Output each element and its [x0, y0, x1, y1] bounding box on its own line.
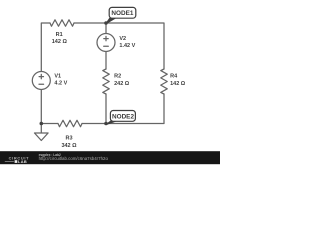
node junction dot at NODE1 [104, 21, 108, 25]
label V1 value [54, 73, 67, 86]
label R4 value [170, 74, 186, 87]
svg-text:R3: R3 [65, 136, 72, 142]
svg-text:V2: V2 [119, 36, 126, 42]
wire R2 bottom to bottom wire [105, 94, 107, 124]
svg-text:342 Ω: 342 Ω [61, 143, 77, 149]
wire V1 bottom to junction [40, 90, 42, 124]
svg-text:4.2 V: 4.2 V [54, 80, 67, 86]
resistor R4 [161, 69, 168, 94]
wire stub V2 top [105, 23, 107, 33]
svg-text:1.42 V: 1.42 V [119, 43, 135, 49]
svg-text:242 Ω: 242 Ω [114, 81, 130, 87]
watermark CircuitLab logo [5, 155, 29, 164]
watermark bar [0, 151, 220, 164]
label R2 value [114, 74, 130, 87]
resistor R1 [50, 20, 74, 27]
node label NODE2 [106, 111, 136, 125]
resistor R3 [58, 120, 82, 127]
resistor R2 [103, 69, 110, 94]
svg-text:LAB: LAB [18, 159, 27, 164]
svg-text:NODE1: NODE1 [111, 10, 133, 17]
svg-text:R1: R1 [56, 32, 63, 38]
svg-text:142 Ω: 142 Ω [52, 39, 68, 45]
voltage source V1 [32, 72, 50, 90]
label R3 value [61, 136, 77, 149]
svg-text:V1: V1 [54, 73, 61, 79]
wire left riser and top-left segment to R1 [41, 23, 50, 71]
svg-text:142 Ω: 142 Ω [170, 81, 186, 87]
wire top from R1 to top-right corner down to R4 [74, 23, 164, 69]
ground [35, 124, 49, 141]
svg-text:NODE2: NODE2 [112, 113, 134, 120]
label V2 value [119, 36, 135, 49]
node junction dot at ground [40, 122, 44, 126]
wire V2 bottom to R2 [105, 52, 107, 69]
voltage source V2 [97, 34, 115, 52]
wire from R4 bottom to bottom-right corner to R3 [82, 94, 164, 124]
node label NODE1 [106, 7, 136, 23]
label R1 value [52, 32, 68, 45]
svg-text:R4: R4 [170, 74, 178, 80]
svg-text:http://circuitlab.com/c6na7sb4: http://circuitlab.com/c6na7sb4r7h2o [39, 156, 109, 161]
wire from R3 to ground junction [41, 123, 58, 125]
svg-text:R2: R2 [114, 74, 121, 80]
node junction dot at NODE2 [104, 122, 108, 126]
